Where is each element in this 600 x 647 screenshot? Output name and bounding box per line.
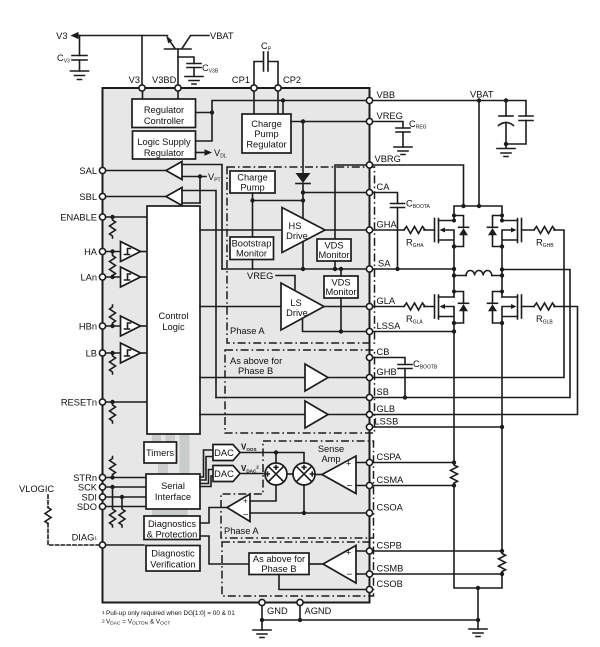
resistor SDI pulldown xyxy=(119,497,125,527)
bus ribbon control-logic to serial-interface xyxy=(180,434,190,474)
svg-text:LSSA: LSSA xyxy=(377,321,402,331)
svg-text:Pump: Pump xyxy=(254,129,278,139)
wire SB return xyxy=(370,270,571,398)
svg-text:CSPB: CSPB xyxy=(377,541,402,551)
capacitor bulk ceramic xyxy=(519,116,533,121)
bus ribbon control-logic to timers xyxy=(152,434,161,443)
svg-text:Regulator: Regulator xyxy=(246,140,286,150)
svg-text:−: − xyxy=(347,570,353,581)
VDS monitor A low box xyxy=(324,276,358,298)
svg-text:LAn: LAn xyxy=(80,273,97,283)
resistor sense A xyxy=(451,463,458,486)
pin GHA xyxy=(366,227,372,233)
transistor M1 HS-A xyxy=(434,219,436,242)
wire sense bottoms to star ground xyxy=(454,486,502,589)
pin RESETn xyxy=(99,399,105,405)
svg-text:RESETn: RESETn xyxy=(61,398,97,408)
svg-text:DAC: DAC xyxy=(214,469,234,479)
junction VDS low LSSA xyxy=(339,329,343,333)
pin CA xyxy=(366,189,372,195)
multiplier M2 xyxy=(293,463,315,485)
capacitor CBOOTA xyxy=(391,204,405,208)
wire V3 rail xyxy=(77,35,168,37)
pin SDI xyxy=(99,494,105,500)
charge pump box xyxy=(230,171,275,193)
resistor ENABLE pulldown xyxy=(110,217,116,238)
pin HA xyxy=(99,248,105,254)
svg-text:Timers: Timers xyxy=(146,448,174,458)
svg-text:DIAG1: DIAG1 xyxy=(72,533,98,543)
pin VREG xyxy=(366,118,372,124)
junction charge pump out xyxy=(301,198,305,202)
pin SDO xyxy=(99,503,105,509)
svg-text:V3: V3 xyxy=(129,75,140,85)
wire SAL output xyxy=(103,170,167,172)
svg-text:VBAT: VBAT xyxy=(210,31,234,41)
diagnostics and protection box xyxy=(144,516,200,540)
svg-text:VLOGIC: VLOGIC xyxy=(19,484,54,494)
svg-text:CP1: CP1 xyxy=(232,75,250,85)
transistor M3 LS-A xyxy=(434,295,436,318)
wire VREG from charge pump regulator xyxy=(291,121,370,123)
op-amp LS drive xyxy=(281,283,324,330)
wire SDO xyxy=(103,506,147,508)
wire GLB buffer out xyxy=(328,414,370,416)
svg-text:VREG: VREG xyxy=(377,111,403,121)
svg-text:As above for: As above for xyxy=(230,356,282,366)
junction cap tap xyxy=(504,98,508,102)
bus ribbon control-logic to timers 2 xyxy=(166,434,176,443)
svg-text:GLB: GLB xyxy=(377,404,396,414)
svg-text:+: + xyxy=(243,497,248,506)
junction VBB to charge pump regulator xyxy=(281,98,285,102)
wire VDS low to LSSA xyxy=(340,298,342,332)
wire VBRG to bridge xyxy=(370,165,464,206)
wire comparator out to diagnostics xyxy=(200,508,227,524)
svg-text:SDI: SDI xyxy=(82,493,98,503)
IC body xyxy=(103,88,370,603)
svg-text:CA: CA xyxy=(377,182,391,192)
wire SBL output xyxy=(103,196,167,198)
op-amp HS drive xyxy=(282,208,325,253)
junction LAn xyxy=(110,275,114,279)
as above for phase B box xyxy=(249,553,309,575)
resistor VLOGIC pullup xyxy=(45,508,51,524)
wire SA internal line xyxy=(222,268,370,270)
DAC U1 xyxy=(213,445,240,461)
wire serial to DAC1 lines xyxy=(200,450,213,487)
junction SCK xyxy=(110,485,114,489)
wire VDS high to SA xyxy=(334,261,336,269)
svg-text:CSOB: CSOB xyxy=(377,579,403,589)
transistor Q1 emitter arrow xyxy=(166,36,172,43)
charge pump regulator box xyxy=(242,114,291,153)
wire VBB rail to VBAT xyxy=(370,101,527,117)
VDS monitor A high box xyxy=(317,239,351,261)
svg-text:Phase B: Phase B xyxy=(261,564,296,574)
wire SA to bridge xyxy=(370,268,455,270)
wire VLOGIC dashed pullup xyxy=(47,495,49,508)
wire sense A out to mult2 xyxy=(315,474,322,476)
serial interface box xyxy=(146,474,200,509)
wire RESETn xyxy=(103,401,148,403)
wire SAL buffer bottom VPT xyxy=(182,176,206,178)
wire VPT tie xyxy=(199,177,201,204)
wire HBn xyxy=(103,325,121,327)
diode M3 body xyxy=(454,292,464,324)
resistor RGLA xyxy=(404,303,425,310)
wire CA to bootstrap cap xyxy=(370,193,398,270)
svg-text:Logic: Logic xyxy=(162,322,185,332)
wire sense A inputs xyxy=(356,463,370,486)
svg-text:Regulator: Regulator xyxy=(144,148,184,158)
svg-text:+: + xyxy=(346,548,351,558)
pin GHB xyxy=(366,374,372,380)
pin SCK xyxy=(99,484,105,490)
capacitor CREG xyxy=(396,128,410,132)
diode M2 body xyxy=(493,216,503,247)
wire HS drive out to GHA xyxy=(325,229,370,231)
junction HA xyxy=(110,249,114,253)
wire VBAT down to bridge rail xyxy=(478,101,480,207)
resistor RGHA xyxy=(404,227,425,234)
buffer SBL xyxy=(166,188,182,206)
svg-text:GND: GND xyxy=(267,606,288,616)
wire GLB gate with resistor RGLB xyxy=(370,307,578,415)
wire VREG to CREG xyxy=(370,122,404,148)
svg-text:SCK: SCK xyxy=(78,483,98,493)
junction VBAT xyxy=(477,98,481,102)
diode M4 body xyxy=(493,292,503,324)
wire LAn xyxy=(103,276,121,278)
wire SBL buffer bottom VPT xyxy=(182,202,200,204)
wire GLA gate xyxy=(370,306,435,308)
pin LSSA xyxy=(366,328,372,334)
pin CSPB xyxy=(366,548,372,554)
wire VBB into charge pump regulator xyxy=(282,101,284,115)
wire LSSB xyxy=(370,323,503,551)
pin LSSB xyxy=(366,424,372,430)
resistor SCK pulldown xyxy=(110,487,116,527)
wire star ground stem xyxy=(477,588,479,629)
wire V3 pin into regulator controller xyxy=(143,88,179,99)
regulator controller box xyxy=(132,99,196,128)
pin CSMB xyxy=(366,571,372,577)
svg-text:+: + xyxy=(346,459,351,469)
wire VBRG internal rail xyxy=(335,165,370,239)
resistor RESETn pulldown xyxy=(110,402,116,423)
svg-text:HS: HS xyxy=(289,221,302,231)
svg-text:GHA: GHA xyxy=(377,220,398,230)
phase B drive dash-dot box xyxy=(225,350,375,433)
logic supply regulator box xyxy=(133,131,196,159)
svg-text:Sense: Sense xyxy=(318,444,344,454)
pin GND xyxy=(259,599,265,605)
pin CSPA xyxy=(366,459,372,465)
svg-text:CSMA: CSMA xyxy=(377,475,405,485)
resistor LB pulldown xyxy=(110,353,116,374)
svg-text:Verification: Verification xyxy=(150,560,195,570)
pin DIAG xyxy=(99,542,105,548)
junction ENABLE xyxy=(110,215,114,219)
wire VREG to LS drive xyxy=(276,276,295,290)
resistor HA-LAn xyxy=(110,252,116,278)
resistor sense B xyxy=(499,551,506,574)
pin CSOB xyxy=(366,586,372,592)
wire HA buffer out xyxy=(141,251,148,253)
wire GHB buffer out xyxy=(328,377,370,379)
wire control logic to GHB buffer xyxy=(200,377,305,379)
op-amp sense B xyxy=(323,546,356,584)
svg-text:SDO: SDO xyxy=(77,502,97,512)
wire HBn buffer out xyxy=(141,325,148,327)
transistor Q1 pass xyxy=(165,48,192,50)
op-amp sense A xyxy=(322,456,356,494)
wire mult1 to comparator plus xyxy=(250,485,276,501)
resistor HBn pullup xyxy=(110,305,116,326)
svg-text:Phase B: Phase B xyxy=(238,366,273,376)
svg-text:Drive: Drive xyxy=(286,308,308,318)
wire GND AGND rail xyxy=(262,603,478,631)
wire SAL buffer top input from SA xyxy=(182,165,222,270)
pin AGND xyxy=(297,599,303,605)
svg-text:& Protection: & Protection xyxy=(147,530,198,540)
ground below CV3B xyxy=(185,77,203,85)
DAC U2 xyxy=(213,466,240,482)
wire sense B inputs xyxy=(356,551,370,574)
wire ENABLE xyxy=(103,216,148,218)
wire CB to bootstrap cap B xyxy=(370,358,406,398)
wire LS drive out to GLA xyxy=(324,306,370,308)
capacitor CP between CP1 CP2 xyxy=(254,62,278,89)
pin V3 xyxy=(139,85,145,91)
control logic box xyxy=(147,206,200,434)
svg-text:SA: SA xyxy=(378,259,391,269)
wire SCK xyxy=(103,486,147,488)
wire charge pump to diode node xyxy=(253,193,304,237)
wire control logic to GLB buffer xyxy=(200,414,305,416)
svg-text:Charge: Charge xyxy=(251,119,282,129)
diode charge pump blocking xyxy=(302,184,304,193)
svg-text:LSSB: LSSB xyxy=(375,417,399,427)
wire LB xyxy=(103,352,121,354)
svg-text:Phase A: Phase A xyxy=(230,326,265,336)
svg-text:Drive: Drive xyxy=(286,231,308,241)
wire HS drive bottom to SA xyxy=(302,242,304,270)
pin CSOA xyxy=(366,510,372,516)
phase A sense dash-dot box xyxy=(221,441,374,538)
wire VDS low top to SA xyxy=(340,269,342,276)
svg-text:Regulator: Regulator xyxy=(144,105,184,115)
transistor M2 HS-B xyxy=(521,219,523,242)
svg-text:VBRG: VBRG xyxy=(375,154,401,164)
wire VOOS to multipliers xyxy=(240,453,304,464)
pin GLB xyxy=(366,411,372,417)
svg-text:−: − xyxy=(347,481,353,492)
V3 arrow xyxy=(71,32,79,39)
pin CSMA xyxy=(366,482,372,488)
wire LB buffer out xyxy=(141,352,148,354)
buffer SAL xyxy=(166,162,182,180)
pin V3BD xyxy=(175,85,181,91)
svg-text:CP2: CP2 xyxy=(283,75,301,85)
pin CB xyxy=(366,354,372,360)
bus ribbon timers to serial-interface xyxy=(158,462,168,475)
svg-text:Phase A: Phase A xyxy=(224,526,259,536)
junction cap bottoms xyxy=(504,142,508,146)
ground below CREG xyxy=(394,147,412,155)
pin LB xyxy=(99,350,105,356)
svg-text:GHB: GHB xyxy=(377,367,397,377)
wire VDAC to mult1 xyxy=(240,473,265,475)
capacitor CV3B xyxy=(187,64,201,68)
bridge top rail xyxy=(454,206,502,221)
bridge phase columns xyxy=(454,247,502,298)
wire CSPA CSMA to sense resistor A xyxy=(370,463,455,486)
wire SBL buffer top input from SB xyxy=(182,191,216,398)
svg-text:AGND: AGND xyxy=(305,606,332,616)
phase A drive dash-dot box xyxy=(227,167,375,343)
junction regulator rail xyxy=(210,110,214,114)
wire control logic to HS drive xyxy=(200,229,282,231)
wire LSSA to sense xyxy=(370,323,455,463)
capacitor bulk electrolytic xyxy=(505,101,507,145)
wire control logic to LS drive xyxy=(200,306,281,308)
wire sense B out xyxy=(309,563,323,565)
schmitt buffer LB xyxy=(121,343,141,363)
wire VREG internal rail down xyxy=(302,122,304,173)
svg-text:V3: V3 xyxy=(56,31,67,41)
buffer GLB drive xyxy=(305,401,328,428)
pin STRn xyxy=(99,474,105,480)
svg-text:Monitor: Monitor xyxy=(325,287,356,297)
junction VOOS mult1 xyxy=(274,450,278,454)
svg-text:VREG: VREG xyxy=(247,271,273,281)
svg-text:Pump: Pump xyxy=(240,183,264,193)
diode M1 body xyxy=(454,216,464,247)
timers box xyxy=(144,442,177,463)
junction mult2 CSOA xyxy=(302,511,306,515)
svg-text:VBB: VBB xyxy=(377,90,396,100)
resistor STRn pull xyxy=(110,457,116,478)
svg-text:VDS: VDS xyxy=(324,241,343,251)
svg-text:DAC: DAC xyxy=(214,448,234,458)
svg-text:HBn: HBn xyxy=(79,322,97,332)
wire dashed to DIAG xyxy=(48,524,99,546)
pin GLA xyxy=(366,303,372,309)
ground below CV3 xyxy=(71,71,89,80)
svg-text:Monitor: Monitor xyxy=(318,250,349,260)
svg-text:V3BD: V3BD xyxy=(152,75,177,85)
svg-text:Control: Control xyxy=(159,311,189,321)
svg-text:STRn: STRn xyxy=(73,473,97,483)
wire comparator minus CSOA xyxy=(250,512,370,514)
wire CA line from diode xyxy=(303,192,370,194)
junction VPT xyxy=(198,174,202,178)
pin ENABLE xyxy=(99,214,105,220)
junction SA nodes xyxy=(301,267,305,271)
svg-text:As above for: As above for xyxy=(253,554,305,564)
svg-text:SBL: SBL xyxy=(79,192,97,202)
wire GHB gate with resistor RGHB xyxy=(370,230,565,378)
wire mult1 to mult2 xyxy=(287,473,293,475)
wire LSSA internal xyxy=(303,319,370,332)
wire diode node down to HS supply xyxy=(302,193,304,220)
schmitt buffer HA xyxy=(121,242,141,262)
svg-text:Logic Supply: Logic Supply xyxy=(137,137,191,147)
buffer GHB drive xyxy=(305,364,328,391)
wire mult2 to CSOA line xyxy=(303,485,305,513)
svg-text:SAL: SAL xyxy=(79,166,97,176)
svg-text:Diagnostics: Diagnostics xyxy=(148,519,196,529)
svg-text:HA: HA xyxy=(84,247,98,257)
svg-text:VDS: VDS xyxy=(331,278,350,288)
junction diode to CA xyxy=(301,190,305,194)
svg-text:LB: LB xyxy=(86,349,97,359)
wire HA xyxy=(103,251,121,253)
junction VREG rail xyxy=(301,119,305,123)
capacitor CBOOTB xyxy=(398,365,412,369)
svg-text:Monitor: Monitor xyxy=(236,249,267,259)
pin HBn xyxy=(99,323,105,329)
wire V3BD tap to CV3B xyxy=(178,57,194,77)
junction RESETn xyxy=(110,400,114,404)
svg-text:LS: LS xyxy=(290,298,301,308)
pin SBL xyxy=(99,193,105,199)
junction rail feeds xyxy=(461,204,465,208)
wire CSPB CSMB to sense resistor B xyxy=(370,551,503,574)
svg-text:Serial: Serial xyxy=(161,481,185,491)
transistor M4 LS-B xyxy=(521,295,523,318)
svg-text:CSPA: CSPA xyxy=(377,452,402,462)
comparator protection xyxy=(227,494,250,522)
wire regulator controller output xyxy=(196,112,213,114)
svg-text:CSMB: CSMB xyxy=(377,564,404,574)
svg-text:Controller: Controller xyxy=(144,116,184,126)
wire SDI xyxy=(103,496,147,498)
junction STRn xyxy=(110,475,114,479)
wire VDL output arrow xyxy=(196,152,206,154)
svg-text:ENABLE: ENABLE xyxy=(60,213,97,223)
pin VBRG xyxy=(366,162,372,168)
capacitor CV3 xyxy=(79,36,81,72)
svg-text:VBAT: VBAT xyxy=(470,90,494,100)
junction LB xyxy=(110,351,114,355)
svg-text:CB: CB xyxy=(377,347,390,357)
junction SDI xyxy=(120,495,124,499)
wire diagnostics to phase B sense xyxy=(200,536,249,564)
multiplier M1 xyxy=(265,463,287,485)
ground power star symbol xyxy=(469,629,487,637)
schmitt buffer LAn xyxy=(121,267,141,287)
inductor motor load xyxy=(454,275,502,277)
wire CSOB from phase B box xyxy=(279,575,370,590)
wire DIAG into diagnostics xyxy=(103,544,145,546)
svg-text:Bootstrap: Bootstrap xyxy=(232,239,272,249)
wire GHA gate xyxy=(370,229,435,231)
svg-text:SB: SB xyxy=(377,387,389,397)
ground GND symbol xyxy=(253,630,271,638)
schmitt buffer HBn xyxy=(121,316,141,336)
svg-text:1 Pull-up only required when D: 1 Pull-up only required when DG[1:0] = 0… xyxy=(102,610,235,618)
svg-text:Charge: Charge xyxy=(237,173,268,183)
pin VBB xyxy=(366,97,372,103)
svg-text:−: − xyxy=(243,510,248,520)
wire SB internal line xyxy=(216,397,370,399)
diagnostic verification box xyxy=(146,546,200,572)
junction HBn xyxy=(110,324,114,328)
pin CP1 xyxy=(251,85,257,91)
